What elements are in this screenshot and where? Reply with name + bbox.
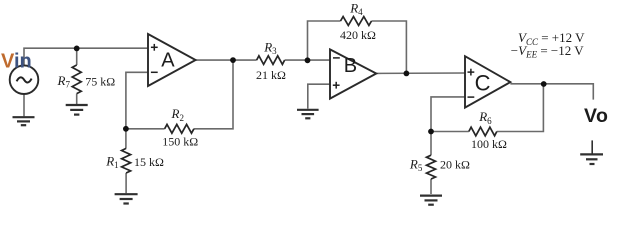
svg-text:75 kΩ: 75 kΩ [85,74,115,88]
svg-text:−VEE = −12 V: −VEE = −12 V [511,43,584,60]
svg-text:Vin: Vin [1,51,32,73]
svg-text:R4: R4 [349,0,363,17]
svg-text:R7: R7 [57,73,71,90]
svg-text:420 kΩ: 420 kΩ [340,28,376,42]
svg-text:R1: R1 [105,153,118,170]
svg-text:20 kΩ: 20 kΩ [440,157,470,171]
svg-text:15 kΩ: 15 kΩ [134,155,164,169]
svg-text:B: B [344,55,357,77]
svg-text:R2: R2 [171,106,184,123]
svg-text:150 kΩ: 150 kΩ [162,135,198,149]
svg-text:21 kΩ: 21 kΩ [256,68,286,82]
svg-text:Vo: Vo [584,105,608,127]
svg-text:R3: R3 [263,40,277,57]
svg-text:A: A [161,49,175,71]
svg-text:100 kΩ: 100 kΩ [471,137,507,151]
svg-text:R6: R6 [478,109,492,126]
svg-text:C: C [475,71,491,96]
svg-text:R5: R5 [409,156,423,173]
